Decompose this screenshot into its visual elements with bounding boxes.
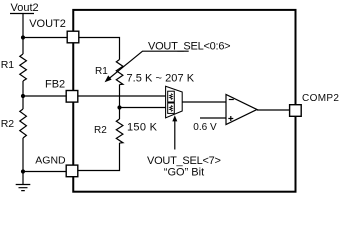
- wire 0.6V reference: [200, 117, 226, 119]
- svg-text:AGND: AGND: [35, 155, 66, 167]
- svg-text:R2: R2: [94, 125, 107, 136]
- junction dot AGND: [21, 169, 25, 173]
- pin VOUT2 pad: [67, 31, 79, 43]
- wire AGND internal to R2 internal: [79, 143, 120, 171]
- svg-text:R2: R2: [1, 118, 15, 130]
- wire mux output: [183, 101, 227, 103]
- resistor R2 internal: [116, 119, 123, 143]
- leader arrow VOUT_SEL to R1 wiper: [107, 51, 189, 80]
- junction dot Vout2/VOUT2: [21, 35, 25, 39]
- ground symbol: [16, 172, 31, 191]
- wire tap to mux input 2: [120, 107, 167, 109]
- mux input box 1: [168, 91, 175, 102]
- wire comparator output: [257, 109, 290, 111]
- comparator plus input: [228, 116, 233, 121]
- wire to VOUT2 pin: [23, 37, 67, 39]
- pin COMP2 pad: [290, 105, 302, 117]
- svg-text:7.5 K ~ 207 K: 7.5 K ~ 207 K: [127, 73, 195, 85]
- wire VOUT2 internal to R1 top: [79, 38, 120, 60]
- comparator minus input: [229, 99, 234, 101]
- wire R1 internal bottom rail: [119, 85, 121, 120]
- IC block boundary: [73, 10, 295, 192]
- pin AGND pad: [66, 165, 78, 177]
- junction dot FB2: [21, 94, 25, 98]
- svg-text:R1: R1: [1, 59, 15, 71]
- wire AGND: [23, 171, 67, 173]
- wire FB2: [23, 95, 67, 97]
- svg-text:R1: R1: [95, 66, 108, 77]
- svg-text:VOUT_SEL<7>: VOUT_SEL<7>: [147, 155, 221, 167]
- comparator U2: [226, 95, 257, 125]
- svg-text:COMP2: COMP2: [302, 93, 339, 104]
- resistor R1 external: [20, 54, 27, 81]
- svg-text:Vout2: Vout2: [11, 2, 39, 14]
- svg-text:FB2: FB2: [45, 78, 65, 90]
- svg-text:150 K: 150 K: [127, 122, 158, 134]
- wire rail FB2 to R2: [22, 96, 24, 109]
- mux input box 2: [168, 103, 175, 113]
- wire Vout2 entry leader: [10, 14, 34, 38]
- wire rail Vout2 to R1: [22, 38, 24, 55]
- resistor R1 internal: [116, 60, 123, 85]
- arrow GO bit to mux: [174, 121, 176, 150]
- pin FB2 pad: [66, 91, 78, 103]
- svg-text:“GO” Bit: “GO” Bit: [164, 167, 204, 179]
- wire rail R2 to AGND: [22, 138, 24, 172]
- mux U1 body: [166, 86, 183, 118]
- svg-text:0.6 V: 0.6 V: [193, 122, 217, 133]
- svg-text:VOUT2: VOUT2: [29, 18, 66, 30]
- wire rail R1 to FB2: [22, 81, 24, 96]
- resistor R2 external: [20, 109, 27, 138]
- junction dot divider tap: [117, 105, 121, 109]
- wire FB2 to mux input 1: [79, 95, 167, 97]
- svg-text:VOUT_SEL<0:6>: VOUT_SEL<0:6>: [148, 40, 230, 52]
